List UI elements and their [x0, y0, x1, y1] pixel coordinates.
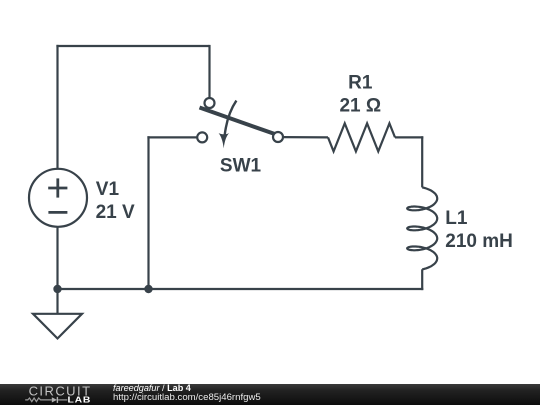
- node junction at ground and V1: [53, 285, 61, 293]
- svg-text:V1: V1: [96, 179, 120, 200]
- url text: [113, 393, 261, 403]
- switch SW1 (SPDT): [197, 98, 283, 148]
- svg-text:LAB: LAB: [67, 396, 91, 405]
- title text: [113, 384, 191, 394]
- wire from switch right throw terminal to R1: [283, 136, 328, 138]
- wire top horizontal run: [56, 45, 209, 47]
- voltage source V1: [29, 169, 87, 227]
- wire from V1 negative terminal down to bottom net: [56, 227, 58, 289]
- node junction at middle vertical: [144, 285, 152, 293]
- wire from L1 down to bottom net: [421, 269, 423, 290]
- CircuitLab logo: [0, 382, 125, 405]
- wire from switch pole terminal to the left: [147, 136, 197, 138]
- svg-text:210 mH: 210 mH: [445, 231, 513, 252]
- svg-text:21 Ω: 21 Ω: [339, 96, 381, 117]
- resistor R1: [328, 123, 395, 151]
- svg-text:SW1: SW1: [220, 155, 262, 176]
- inductor L1: [407, 187, 437, 269]
- wire from V1 positive terminal up to top-left corner: [56, 45, 58, 169]
- ground: [33, 289, 82, 339]
- wire from R1 to top-right corner: [395, 136, 423, 138]
- svg-text:21 V: 21 V: [96, 202, 135, 223]
- wire bottom horizontal net: [58, 288, 424, 290]
- svg-text:L1: L1: [445, 208, 468, 229]
- wire middle vertical run down to bottom net: [147, 136, 149, 289]
- wire right vertical run down to L1: [421, 136, 423, 187]
- wire drop to switch top throw terminal: [208, 45, 210, 98]
- svg-text:R1: R1: [348, 72, 373, 93]
- footer bar: [0, 384, 540, 405]
